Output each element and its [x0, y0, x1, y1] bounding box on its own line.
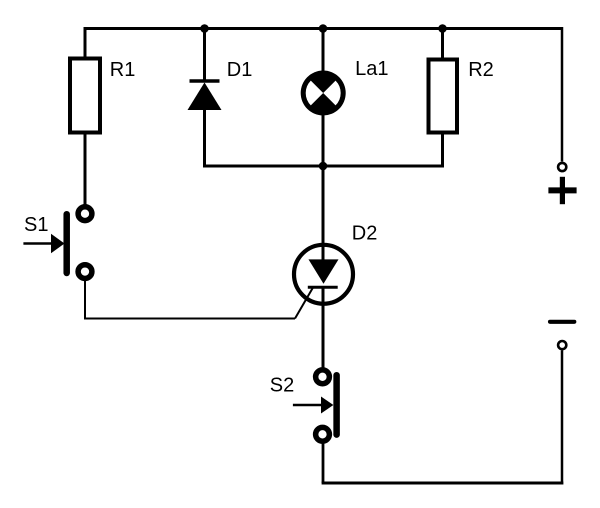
svg-text:S2: S2	[270, 375, 294, 397]
wire R2 top	[441, 29, 444, 60]
wire R2 bottom	[441, 133, 444, 167]
minus sign	[550, 320, 574, 324]
wire top rail	[85, 27, 562, 30]
lamp La1	[301, 71, 346, 116]
wire La1 bottom	[322, 114, 325, 166]
svg-text:R1: R1	[110, 59, 136, 81]
svg-text:D1: D1	[227, 59, 253, 81]
wire plus riser	[561, 27, 564, 162]
wire R1 top	[84, 27, 87, 58]
wire sub-loop bottom	[203, 165, 444, 168]
svg-text:D2: D2	[352, 223, 378, 245]
terminal circle minus	[558, 341, 566, 349]
wire D2 to S2	[322, 288, 325, 368]
svg-text:R2: R2	[468, 59, 494, 81]
wire D1 bottom	[203, 108, 206, 166]
svg-text:S1: S1	[24, 214, 48, 236]
terminal circle plus	[558, 163, 566, 171]
wire S2 bottom	[322, 442, 325, 483]
junction dot D1 top	[200, 24, 209, 33]
wire La1 top	[322, 29, 325, 74]
resistor R2	[429, 60, 458, 133]
junction dot center node	[319, 162, 328, 171]
switch S2	[293, 370, 337, 441]
wire bottom rail	[322, 482, 564, 485]
plus sign	[548, 177, 576, 204]
wire D1 top	[203, 29, 206, 81]
wire gate diagonal	[295, 288, 313, 319]
wire node to D2	[322, 166, 325, 262]
svg-text:La1: La1	[355, 58, 388, 80]
wire S1 bottom	[85, 280, 295, 319]
wire minus riser	[561, 351, 564, 485]
junction dot R2 top	[438, 24, 447, 33]
thyristor D2	[294, 245, 353, 304]
diode D1	[188, 81, 222, 110]
switch S1	[23, 207, 92, 279]
wire R1 to S1	[84, 133, 87, 206]
resistor R1	[70, 59, 100, 133]
junction dot La1 top	[319, 24, 328, 33]
